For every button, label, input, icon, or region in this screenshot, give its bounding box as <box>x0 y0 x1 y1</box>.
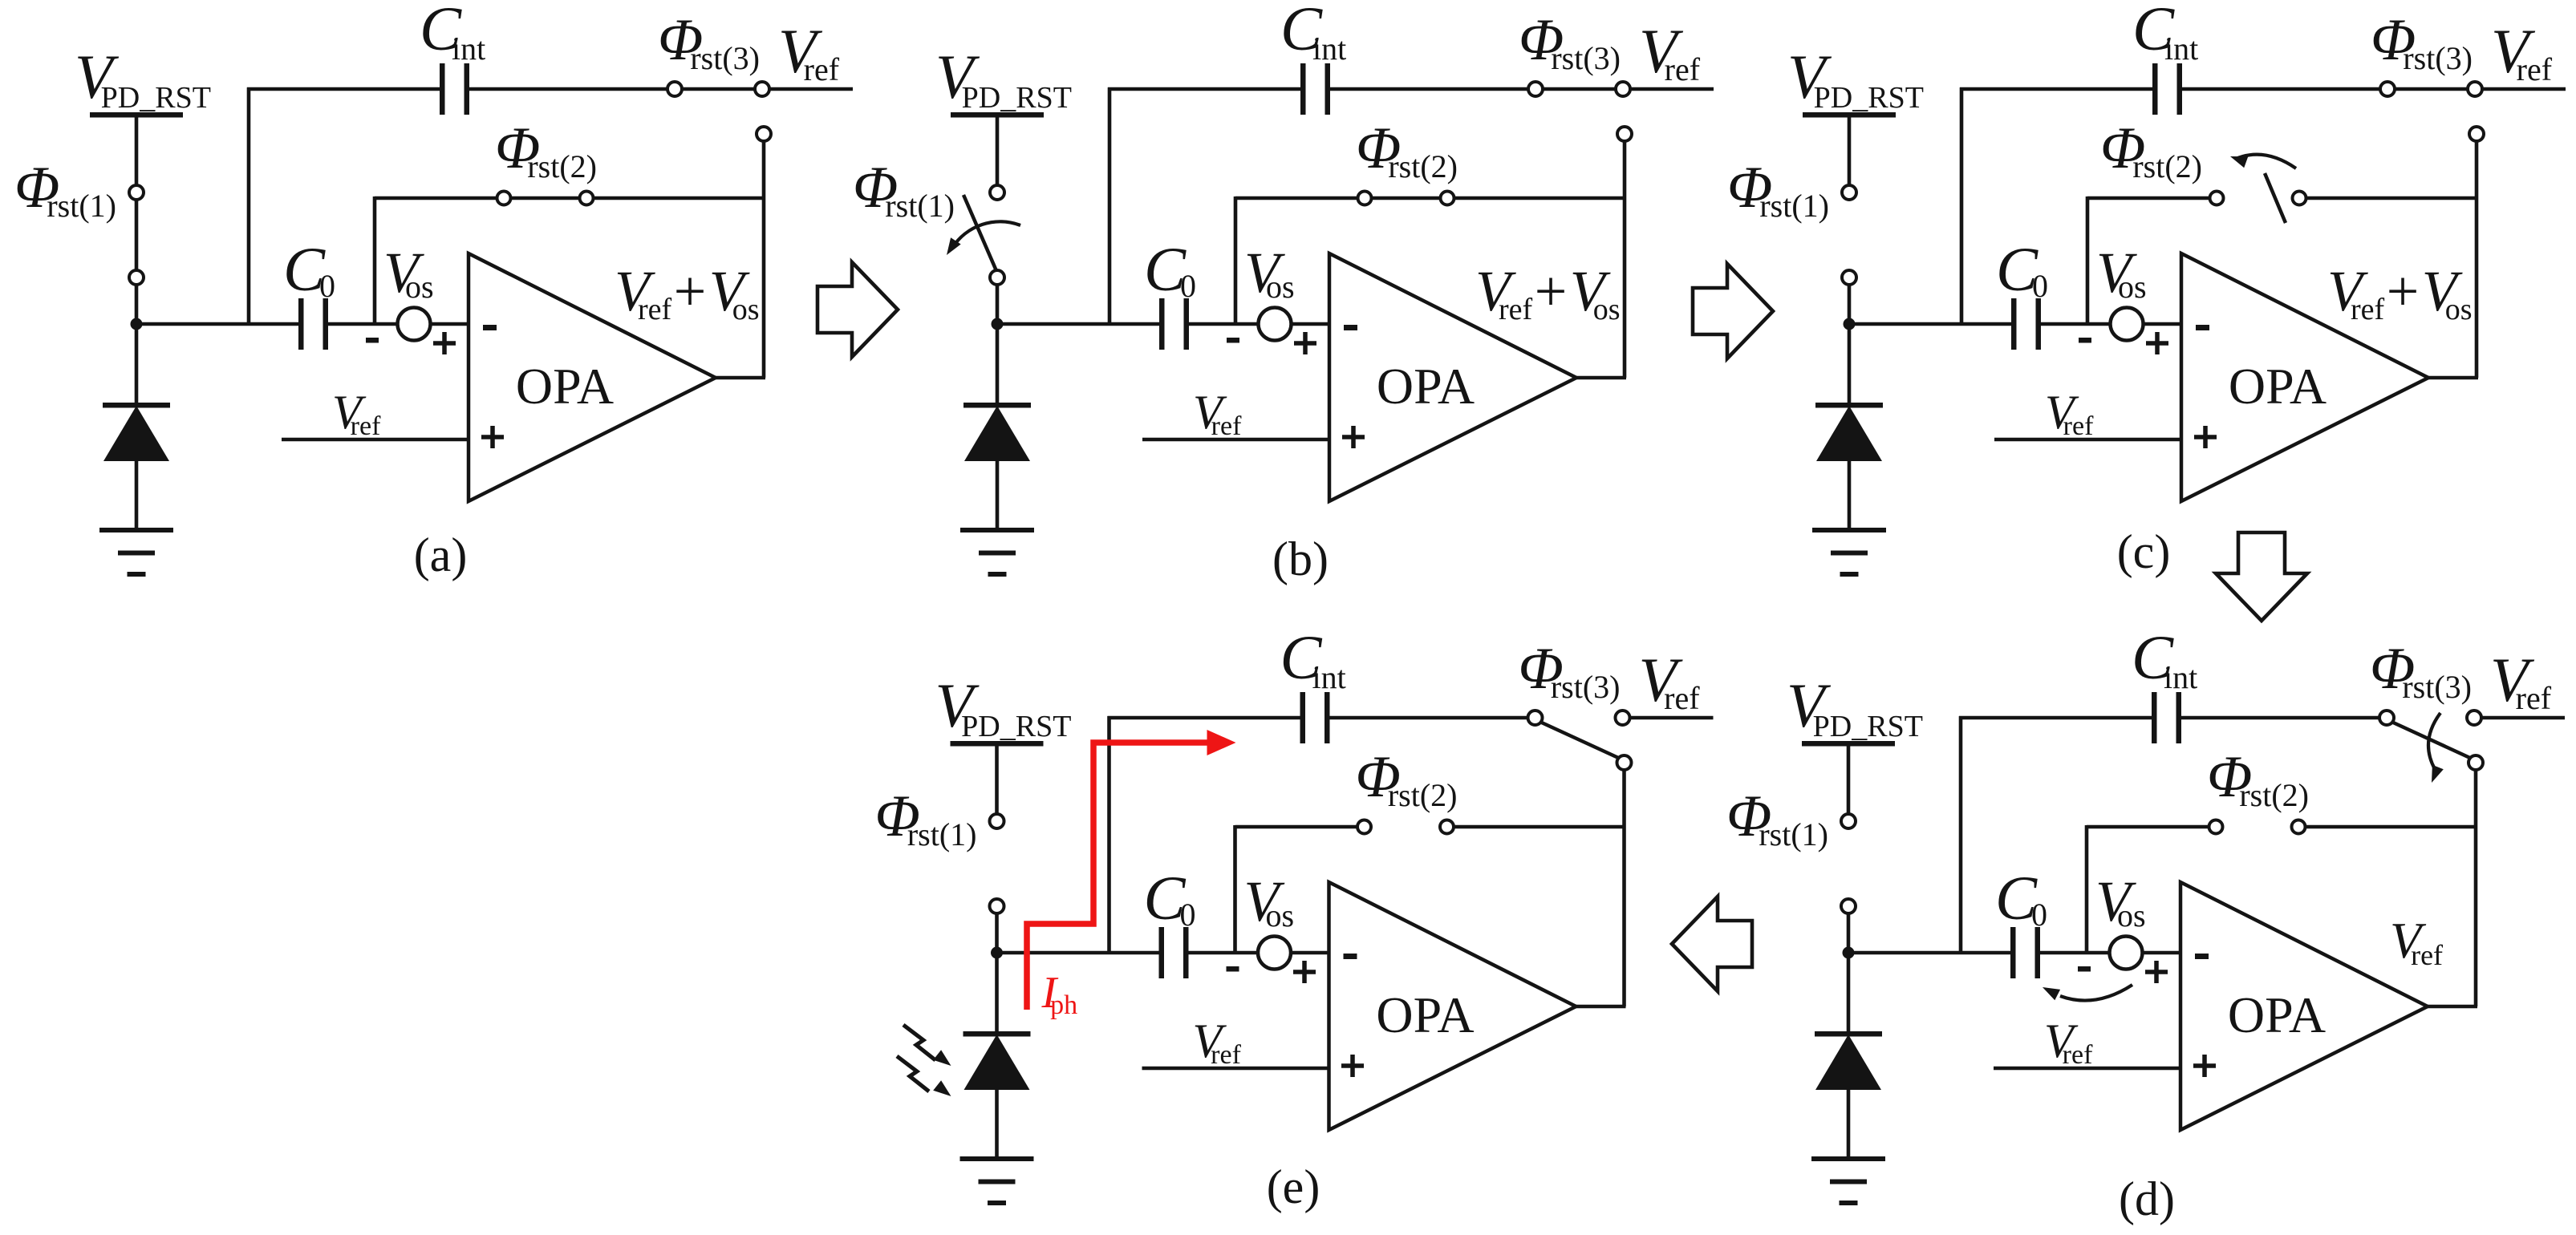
svg-text:OPA: OPA <box>2228 986 2326 1043</box>
wire output riser (c) <box>2475 141 2479 378</box>
switch Phi_rst(1) contact 1 (c) <box>1842 185 1856 200</box>
power rail V_PD_RST bar (c) <box>1803 112 1896 118</box>
wire switch rst1 lower stub (b) <box>996 282 1000 324</box>
op-amp non-inverting input mark (c) <box>2194 426 2217 448</box>
wire photodiode to ground (c) <box>1848 460 1852 529</box>
wire node to photodiode (d) <box>1847 953 1851 1035</box>
capacitor C_int left plate (b) <box>1300 63 1306 115</box>
svg-text:OPA: OPA <box>1376 986 1474 1043</box>
photodiode cathode bar (b) <box>963 403 1031 408</box>
capacitor C_int left plate (a) <box>440 63 445 115</box>
capacitor C0 left plate (e) <box>1159 927 1165 978</box>
photodiode cathode bar (c) <box>1815 403 1883 408</box>
incident light arrowhead 1 (e) <box>933 1050 951 1066</box>
capacitor C0 right plate (c) <box>2036 298 2042 350</box>
photodiode D anode triangle (a) <box>103 406 169 461</box>
offset source V_os circle (a) <box>398 308 431 341</box>
capacitor C_int right plate (b) <box>1325 63 1331 115</box>
red photocurrent arrowhead (e) <box>1207 730 1236 755</box>
ground symbol (e) <box>960 1156 1034 1161</box>
wire V_ref stub (d) <box>2481 716 2565 720</box>
svg-text:(e): (e) <box>1267 1160 1320 1213</box>
wire node to photodiode (b) <box>996 324 1000 406</box>
flow arrow (b) to (c) <box>1693 264 1773 358</box>
label plus at V_os (a) <box>433 332 456 354</box>
switch Phi_rst(3) blade to output (d) <box>2391 722 2472 759</box>
label minus at C0 (e) <box>1227 966 1239 972</box>
wire C_int to rst3 left contact (d) <box>2181 716 2381 720</box>
wire node to photodiode (c) <box>1848 324 1852 406</box>
wire photodiode to ground (a) <box>135 460 139 529</box>
wire feedback left riser (d) <box>2085 825 2089 953</box>
wire feedback rst2 right segment (e) <box>1454 825 1625 829</box>
incident light arrow 1 (e) <box>903 1025 935 1060</box>
switch Phi_rst(3) blade to output (e) <box>1540 722 1621 759</box>
wire photodiode to ground (e) <box>995 1088 999 1158</box>
switch Phi_rst(2) contact R (a) <box>580 192 594 205</box>
charge transfer arc (d) <box>2060 985 2132 1001</box>
wire feedback rst2 left segment (e) <box>1235 825 1358 829</box>
photodiode D anode triangle (b) <box>964 406 1030 461</box>
switch Phi_rst(2) contact L (a) <box>497 192 511 205</box>
wire C_int to V_ref through rst3 (a) <box>469 87 853 91</box>
wire switch rst1 closed path (a) <box>135 186 139 324</box>
switch Phi_rst(2) blade (c) <box>2265 173 2286 223</box>
op-amp inverting input mark (b) <box>1344 325 1357 330</box>
node PD junction (b) <box>992 318 1004 330</box>
wire C0 to V_os (b) <box>1189 322 1260 326</box>
label minus at C0 (b) <box>1227 338 1239 343</box>
switch Phi_rst(1) contact 1 (a) <box>129 185 144 200</box>
switch Phi_rst(3) motion arrowhead (d) <box>2432 765 2444 783</box>
wire op-amp output (e) <box>1575 1005 1626 1009</box>
switch Phi_rst(1) contact 2 (e) <box>990 899 1004 913</box>
ground symbol (c) <box>1812 528 1886 532</box>
power rail V_PD_RST bar (b) <box>951 112 1044 118</box>
op-amp OPA triangle (b) <box>1329 253 1576 501</box>
flow arrow (c) to (d) <box>2216 532 2307 621</box>
label plus at V_os (b) <box>1294 332 1316 354</box>
svg-text:OPA: OPA <box>516 358 614 415</box>
photodiode cathode bar (e) <box>963 1031 1031 1037</box>
wire feedback rst2 right segment (d) <box>2305 825 2476 829</box>
wire C_int to V_ref through rst3 (b) <box>1330 87 1714 91</box>
wire PD node to C0 (d) <box>1845 951 2010 955</box>
wire V_os to op-amp (d) <box>2142 951 2180 955</box>
wire C0 to V_os (e) <box>1189 951 1260 955</box>
switch Phi_rst(3) contact R (d) <box>2467 711 2481 725</box>
photodiode D anode triangle (e) <box>964 1035 1030 1090</box>
switch Phi_rst(3) lower contact (c) <box>2469 127 2484 141</box>
svg-text:OPA: OPA <box>1377 358 1475 415</box>
node PD junction (a) <box>131 318 143 330</box>
svg-text:(a): (a) <box>414 528 468 581</box>
switch Phi_rst(2) contact L (b) <box>1358 192 1372 205</box>
incident light arrowhead 2 (e) <box>933 1080 951 1096</box>
offset source V_os circle (e) <box>1258 937 1291 970</box>
capacitor C0 left plate (c) <box>2011 298 2017 350</box>
switch Phi_rst(3) lower contact (a) <box>757 127 771 141</box>
wire C0 to V_os (a) <box>328 322 399 326</box>
wire photodiode to ground (d) <box>1847 1088 1851 1158</box>
switch Phi_rst(2) motion arc (c) <box>2236 155 2296 168</box>
switch Phi_rst(3) contact L (c) <box>2380 82 2395 96</box>
power rail V_PD_RST bar (a) <box>90 112 183 118</box>
ground symbol (b) <box>960 528 1034 532</box>
svg-text:(c): (c) <box>2117 525 2171 578</box>
incident light arrow 2 (e) <box>897 1056 929 1091</box>
wire V_PD_RST stub (c) <box>1848 115 1852 186</box>
photodiode D anode triangle (c) <box>1816 406 1882 461</box>
wire V_ref to + input (b) <box>1142 438 1329 442</box>
wire feedback rst2 closed (a) <box>375 196 764 200</box>
wire feedback left riser (a) <box>373 196 377 324</box>
svg-text:(b): (b) <box>1272 532 1329 585</box>
wire PD node to C0 (a) <box>133 322 298 326</box>
wire photodiode to ground (b) <box>996 460 1000 529</box>
op-amp inverting input mark (e) <box>1344 954 1357 959</box>
capacitor C_int right plate (e) <box>1325 692 1330 743</box>
wire node to photodiode (e) <box>995 953 999 1035</box>
wire top to C_int (e) <box>1108 716 1300 720</box>
switch Phi_rst(3) contact R (b) <box>1616 82 1630 96</box>
capacitor C_int left plate (c) <box>2152 63 2158 115</box>
switch Phi_rst(1) contact 1 (b) <box>990 185 1004 200</box>
wire top to C_int (d) <box>1959 716 2152 720</box>
switch Phi_rst(1) contact 2 (a) <box>129 270 144 285</box>
switch Phi_rst(3) lower contact (d) <box>2468 755 2483 770</box>
wire feedback rst2 right segment (c) <box>2306 196 2477 200</box>
switch Phi_rst(3) contact L (b) <box>1528 82 1543 96</box>
wire C_int to V_ref through rst3 (c) <box>2182 87 2566 91</box>
wire switch rst1 lower stub (d) <box>1847 911 1851 953</box>
wire V_PD_RST stub (d) <box>1847 743 1851 815</box>
wire V_ref to + input (a) <box>282 438 469 442</box>
wire switch rst1 lower stub (c) <box>1848 282 1852 324</box>
wire V_os to op-amp (c) <box>2143 322 2181 326</box>
switch Phi_rst(2) motion arrowhead (c) <box>2230 156 2248 168</box>
switch Phi_rst(3) contact L (e) <box>1528 711 1543 725</box>
wire V_PD_RST stub (a) <box>135 115 139 186</box>
wire feedback left riser (c) <box>2086 196 2090 324</box>
wire C0 to V_os (c) <box>2041 322 2112 326</box>
label plus at V_os (c) <box>2146 332 2168 354</box>
op-amp inverting input mark (d) <box>2195 954 2209 959</box>
label minus at C0 (d) <box>2078 966 2091 972</box>
wire feedback left riser (e) <box>1233 825 1237 953</box>
wire op-amp output (d) <box>2426 1005 2477 1009</box>
wire C_int to rst3 left contact (e) <box>1330 716 1530 720</box>
switch Phi_rst(3) contact L (d) <box>2379 711 2394 725</box>
svg-text:(d): (d) <box>2119 1172 2175 1225</box>
capacitor C_int left plate (e) <box>1300 692 1306 743</box>
wire op-amp output (c) <box>2427 376 2478 380</box>
ground symbol (d) <box>1811 1156 1885 1161</box>
switch Phi_rst(2) contact R (d) <box>2292 820 2306 834</box>
capacitor C0 left plate (a) <box>298 298 304 350</box>
switch Phi_rst(2) contact R (b) <box>1441 192 1454 205</box>
wire PD node to C0 (b) <box>994 322 1159 326</box>
switch Phi_rst(1) contact 2 (d) <box>1841 899 1856 913</box>
label plus at V_os (e) <box>1293 961 1316 983</box>
flow arrow (a) to (b) <box>817 262 898 357</box>
switch Phi_rst(2) contact L (e) <box>1357 820 1371 834</box>
capacitor C0 right plate (b) <box>1184 298 1190 350</box>
wire V_os to op-amp (e) <box>1291 951 1329 955</box>
switch Phi_rst(3) lower contact (e) <box>1617 755 1632 770</box>
wire feedback rst2 closed (b) <box>1235 196 1625 200</box>
offset source V_os circle (c) <box>2111 308 2144 341</box>
power rail V_PD_RST bar (e) <box>951 741 1044 747</box>
switch Phi_rst(1) contact 1 (d) <box>1841 814 1856 828</box>
switch Phi_rst(1) contact 2 (c) <box>1842 270 1856 285</box>
switch Phi_rst(1) blade (b) <box>963 195 997 273</box>
capacitor C0 right plate (d) <box>2035 927 2041 978</box>
capacitor C0 right plate (e) <box>1183 927 1189 978</box>
wire top to C_int (b) <box>1108 87 1300 91</box>
photodiode cathode bar (a) <box>103 403 170 408</box>
red photocurrent I_ph path (e) <box>1027 743 1223 1010</box>
svg-text:Vref+Vos: Vref+Vos <box>1475 259 1621 326</box>
wire V_os to op-amp (b) <box>1291 322 1329 326</box>
wire PD node to C0 (e) <box>994 951 1159 955</box>
wire branch to integrator top (a) <box>247 87 251 324</box>
wire output riser (d) <box>2474 770 2478 1006</box>
wire top to C_int (a) <box>247 87 440 91</box>
wire V_PD_RST stub (e) <box>995 743 999 815</box>
capacitor C_int right plate (d) <box>2176 692 2182 743</box>
wire V_ref to + input (c) <box>1994 438 2181 442</box>
power rail V_PD_RST bar (d) <box>1802 741 1895 747</box>
switch Phi_rst(3) contact R (e) <box>1616 711 1630 725</box>
wire V_ref stub (e) <box>1629 716 1714 720</box>
switch Phi_rst(2) contact L (c) <box>2210 192 2224 205</box>
wire feedback left riser (b) <box>1234 196 1238 324</box>
wire PD node to C0 (c) <box>1846 322 2011 326</box>
switch Phi_rst(1) motion arc (b) <box>952 221 1020 248</box>
capacitor C0 right plate (a) <box>323 298 329 350</box>
wire op-amp output (a) <box>714 376 765 380</box>
wire C0 to V_os (d) <box>2040 951 2111 955</box>
wire branch to integrator top (e) <box>1107 716 1111 953</box>
label plus at V_os (d) <box>2145 961 2168 983</box>
wire feedback rst2 left segment (d) <box>2087 825 2209 829</box>
wire branch to integrator top (b) <box>1108 87 1112 324</box>
switch Phi_rst(3) contact R (c) <box>2468 82 2482 96</box>
switch Phi_rst(3) contact R (a) <box>755 82 769 96</box>
capacitor C0 left plate (d) <box>2010 927 2016 978</box>
capacitor C_int right plate (c) <box>2177 63 2183 115</box>
offset source V_os circle (d) <box>2110 937 2143 970</box>
switch Phi_rst(3) motion arc (d) <box>2428 713 2440 769</box>
node PD junction (e) <box>991 947 1003 959</box>
op-amp inverting input mark (c) <box>2196 325 2209 330</box>
wire output riser (b) <box>1623 141 1627 378</box>
svg-text:Vref+Vos: Vref+Vos <box>2327 259 2473 326</box>
switch Phi_rst(2) contact R (c) <box>2293 192 2306 205</box>
capacitor C0 left plate (b) <box>1159 298 1165 350</box>
op-amp OPA triangle (c) <box>2181 253 2428 501</box>
op-amp OPA triangle (d) <box>2180 882 2428 1130</box>
op-amp inverting input mark (a) <box>483 325 497 330</box>
svg-text:OPA: OPA <box>2229 358 2327 415</box>
wire top to C_int (c) <box>1960 87 2152 91</box>
switch Phi_rst(1) motion arrowhead (b) <box>947 237 961 255</box>
wire output riser (a) <box>762 141 766 378</box>
wire V_PD_RST stub (b) <box>996 115 1000 186</box>
wire node to photodiode (a) <box>135 324 139 406</box>
offset source V_os circle (b) <box>1259 308 1292 341</box>
wire V_ref to + input (d) <box>1994 1067 2180 1071</box>
wire branch to integrator top (c) <box>1960 87 1964 324</box>
switch Phi_rst(3) contact L (a) <box>667 82 682 96</box>
switch Phi_rst(2) contact R (e) <box>1440 820 1454 834</box>
capacitor C_int left plate (d) <box>2152 692 2157 743</box>
wire V_ref to + input (e) <box>1142 1067 1329 1071</box>
switch Phi_rst(1) contact 1 (e) <box>990 814 1004 828</box>
svg-text:Vref+Vos: Vref+Vos <box>615 259 760 326</box>
wire feedback rst2 left segment (c) <box>2087 196 2210 200</box>
wire op-amp output (b) <box>1575 376 1626 380</box>
photodiode cathode bar (d) <box>1815 1031 1882 1037</box>
op-amp non-inverting input mark (a) <box>481 426 504 448</box>
node PD junction (c) <box>1844 318 1856 330</box>
wire switch rst1 lower stub (e) <box>995 911 999 953</box>
label minus at C0 (a) <box>366 338 379 343</box>
ground symbol (a) <box>99 528 173 532</box>
flow arrow (d) to (e) <box>1672 897 1752 991</box>
switch Phi_rst(3) lower contact (b) <box>1617 127 1632 141</box>
switch Phi_rst(1) contact 2 (b) <box>990 270 1004 285</box>
node PD junction (d) <box>1843 947 1855 959</box>
label minus at C0 (c) <box>2079 338 2091 343</box>
wire branch to integrator top (d) <box>1959 716 1963 953</box>
op-amp OPA triangle (a) <box>469 253 716 501</box>
capacitor C_int right plate (a) <box>464 63 470 115</box>
op-amp non-inverting input mark (d) <box>2193 1055 2216 1077</box>
switch Phi_rst(2) contact L (d) <box>2209 820 2223 834</box>
wire V_os to op-amp (a) <box>430 322 469 326</box>
wire output riser (e) <box>1622 770 1626 1006</box>
op-amp non-inverting input mark (e) <box>1341 1055 1364 1077</box>
op-amp non-inverting input mark (b) <box>1342 426 1365 448</box>
charge transfer arrowhead (d) <box>2043 987 2060 1000</box>
op-amp OPA triangle (e) <box>1329 882 1576 1130</box>
photodiode D anode triangle (d) <box>1815 1035 1881 1090</box>
